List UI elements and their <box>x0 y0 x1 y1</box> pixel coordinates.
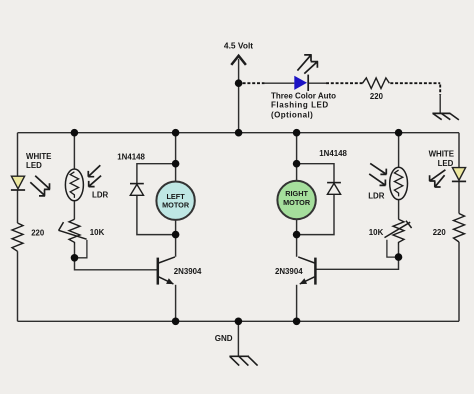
wire LED leads (solid) <box>264 83 440 113</box>
wire right LDR branch <box>398 133 400 257</box>
motor M2 right <box>277 181 315 219</box>
node top bus / right LDR <box>395 129 403 137</box>
diode D5 1N4148 (right) <box>327 183 341 195</box>
node right pot wiper <box>395 253 403 261</box>
wire left edge segments <box>17 133 19 322</box>
svg-text:220: 220 <box>433 228 447 237</box>
node bottom bus / right emitter <box>293 318 301 326</box>
svg-text:RIGHT: RIGHT <box>285 189 308 198</box>
wire left LDR branch <box>73 133 75 258</box>
diode D4 1N4148 (left) <box>130 184 144 196</box>
wire dashed supply bus <box>243 83 441 95</box>
svg-text:Flashing LED: Flashing LED <box>271 101 329 110</box>
LDR LDR1 (left) <box>65 169 83 201</box>
emission arrows right LED <box>429 170 445 187</box>
transistor Q1 2N3904 (left) <box>158 257 175 285</box>
wire GND stub <box>237 321 239 356</box>
node supply tap <box>235 79 243 87</box>
node bottom bus / left emitter <box>172 318 180 326</box>
svg-text:2N3904: 2N3904 <box>174 267 202 276</box>
light arrows left LDR <box>88 165 101 186</box>
svg-text:GND: GND <box>215 334 233 343</box>
motor M1 left <box>156 182 194 220</box>
svg-text:1N4148: 1N4148 <box>117 152 145 161</box>
svg-text:LDR: LDR <box>368 191 385 200</box>
svg-text:LED: LED <box>26 161 42 170</box>
node left motor bottom <box>172 231 180 239</box>
wire supply vertical <box>238 59 240 133</box>
light arrows right LDR <box>369 163 386 185</box>
svg-text:10K: 10K <box>90 228 105 237</box>
resistor R1 220 (left edge) <box>12 223 23 251</box>
LED D2 white (right) <box>452 168 465 181</box>
wire bottom bus <box>18 320 460 322</box>
node top bus / right motor <box>293 129 301 137</box>
svg-text:1N4148: 1N4148 <box>319 149 347 158</box>
LED D1 white (left) <box>11 176 24 189</box>
node left motor top <box>172 160 180 168</box>
svg-text:LEFT: LEFT <box>166 192 185 201</box>
svg-text:LDR: LDR <box>92 191 109 200</box>
svg-text:2N3904: 2N3904 <box>275 267 303 276</box>
ground (top right) <box>432 113 459 120</box>
power arrow 4.5V <box>231 56 246 65</box>
node bottom bus / ground <box>235 318 243 326</box>
svg-text:WHITE: WHITE <box>26 152 51 161</box>
ground (center) <box>229 356 257 365</box>
node top bus / left LDR <box>71 129 79 137</box>
wire right base link <box>316 257 399 269</box>
svg-text:10K: 10K <box>369 228 384 237</box>
wire top bus <box>18 132 460 134</box>
LDR LDR2 (right) <box>390 167 408 199</box>
resistor R2 220 (right edge) <box>454 214 465 243</box>
wire right diode branch <box>297 164 334 235</box>
svg-text:LED: LED <box>438 159 454 168</box>
potentiometer VR1 10K (left) <box>69 219 80 244</box>
svg-text:MOTOR: MOTOR <box>162 201 190 210</box>
svg-text:Three Color Auto: Three Color Auto <box>271 91 336 100</box>
emission arrows left LED <box>30 176 50 196</box>
node left pot wiper <box>71 254 79 262</box>
transistor Q2 2N3904 (right) <box>298 257 315 285</box>
node top bus / left motor <box>172 129 180 137</box>
resistor R5 220 (top) <box>363 78 390 89</box>
svg-text:WHITE: WHITE <box>429 150 454 159</box>
svg-text:MOTOR: MOTOR <box>283 198 311 207</box>
svg-text:220: 220 <box>31 228 45 237</box>
wire right motor branch <box>296 133 298 257</box>
wire left base link <box>75 258 158 270</box>
node right motor bottom <box>293 231 301 239</box>
emission arrows blue LED <box>297 55 318 74</box>
svg-text:220: 220 <box>370 92 384 101</box>
LED D3 three color flashing (blue) <box>295 76 307 89</box>
wire left emitter drop <box>175 285 177 322</box>
svg-text:4.5 Volt: 4.5 Volt <box>224 41 253 51</box>
svg-text:(Optional): (Optional) <box>271 110 313 119</box>
wire right edge segments <box>458 133 460 322</box>
node top bus / supply <box>235 129 243 137</box>
potentiometer VR2 10K (right) <box>393 219 404 244</box>
node right motor top <box>293 160 301 168</box>
wire left diode branch <box>137 164 176 235</box>
wire left motor branch <box>175 133 177 257</box>
wire right emitter drop <box>296 285 298 322</box>
